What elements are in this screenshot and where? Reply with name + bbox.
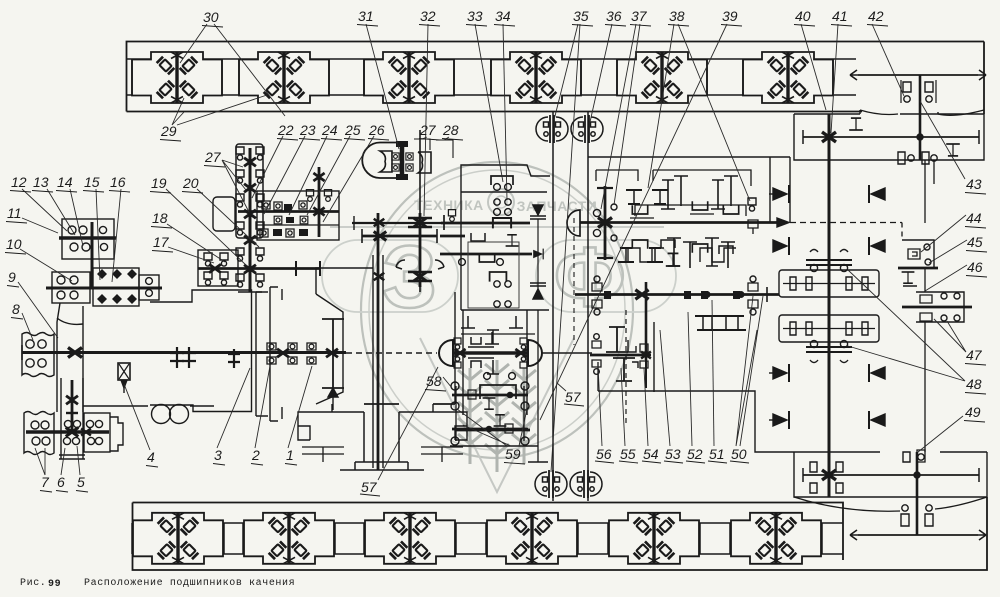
circle pair top left [536, 115, 568, 143]
down arrow symbol [533, 205, 543, 215]
svg-text:З: З [382, 227, 437, 326]
svg-text:35: 35 [573, 8, 589, 24]
leader 59 fan [457, 409, 527, 446]
leader 57a [378, 367, 438, 480]
leader 34 [503, 24, 507, 200]
upper shaft y223 left segment [352, 222, 441, 224]
svg-text:40: 40 [795, 8, 811, 24]
leaf block 8 outline [22, 333, 54, 377]
circle pair bottom right [570, 470, 602, 498]
main bold between bevels [453, 351, 528, 354]
cross shaft y236 [362, 235, 437, 238]
block 17/18 [198, 250, 238, 286]
leader 41 [831, 24, 838, 133]
connecting verticals [455, 386, 457, 441]
svg-text:27: 27 [204, 149, 222, 165]
leaders 27top 28 [422, 137, 449, 140]
hub shaft [46, 287, 162, 290]
gearbox lower case [463, 310, 527, 415]
horseshoe outer body [362, 143, 397, 179]
top band block 4 [491, 52, 581, 103]
mid circles [64, 420, 71, 427]
watermark wheat chevrons [458, 360, 536, 472]
dashed vertical x626 [625, 310, 627, 426]
steering column vertical [249, 148, 252, 292]
svg-text:18: 18 [152, 210, 168, 226]
vertical x646 lower [645, 353, 647, 388]
dashed corner [790, 222, 902, 224]
leader 48 [848, 270, 965, 381]
bracket 27 [414, 139, 430, 150]
svg-text:9: 9 [8, 269, 16, 285]
bracket 28 [436, 140, 453, 158]
watermark outer ring [361, 162, 633, 458]
lower link shaft [198, 267, 320, 270]
top band block 5 [617, 52, 707, 103]
bottom band block 3 [365, 513, 455, 564]
case bearings [810, 462, 843, 472]
axle knot X left [68, 348, 82, 358]
svg-text:6: 6 [57, 474, 65, 490]
watermark emblem circle [488, 189, 514, 215]
housing walls lower [59, 378, 85, 459]
big I gear above [606, 327, 628, 352]
top horn shaft [858, 74, 978, 76]
upper case shaft [803, 136, 979, 138]
svg-text:8: 8 [12, 301, 20, 317]
svg-text:99: 99 [48, 579, 61, 590]
right bevel D-gear [528, 340, 542, 366]
vertical x420 [419, 130, 421, 292]
svg-text:2: 2 [251, 447, 260, 463]
svg-text:56: 56 [596, 446, 612, 462]
watermark inner ring [369, 170, 625, 450]
leader 36 [590, 24, 612, 122]
kingpin vertical [91, 222, 94, 287]
leader 18 17 [167, 224, 225, 263]
leader 49 [918, 416, 963, 452]
funnels top [860, 110, 984, 115]
svg-text:14: 14 [57, 174, 73, 190]
svg-text:52: 52 [687, 446, 703, 462]
knuckle housing walls [57, 303, 60, 412]
case wall x654 [653, 322, 655, 392]
leader 42 [872, 24, 904, 96]
bottom band rails [133, 522, 844, 524]
kingpin lower vertical [71, 380, 74, 432]
svg-text:Ф: Ф [554, 230, 626, 324]
small square bearings row [262, 201, 270, 209]
D-bevel on input shaft [567, 210, 580, 236]
leader 40 [801, 24, 826, 110]
leader 58 [443, 377, 452, 388]
svg-text:44: 44 [966, 210, 982, 226]
leader 11 10 9 8 [18, 218, 72, 340]
leaders 7 6 5 [35, 446, 80, 475]
svg-text:19: 19 [151, 175, 167, 191]
leader 44 [921, 215, 966, 252]
leaders 56-50 [598, 366, 602, 446]
horseshoe bold bar [400, 142, 405, 180]
clutch arrows y246 [773, 237, 789, 255]
svg-text:45: 45 [967, 234, 983, 250]
planetary case upper [779, 270, 879, 297]
gearbox mid shaft [440, 253, 532, 256]
svg-text:10: 10 [6, 236, 22, 252]
countershaft bearings [592, 283, 602, 291]
svg-text:29: 29 [160, 123, 177, 139]
svg-text:59: 59 [505, 446, 521, 462]
bell outline / clutch discs [150, 290, 252, 412]
wheel 2 [170, 405, 189, 424]
lower wavy leaf block [24, 412, 54, 455]
right wavy piece [418, 152, 431, 173]
top band frame [127, 42, 985, 112]
gears above/below between bevels [468, 337, 494, 347]
gearbox lower gears [490, 272, 507, 282]
lower shaft 2 [452, 428, 528, 431]
svg-text:24: 24 [321, 122, 338, 138]
bottom vertical x917 [916, 452, 919, 535]
below countershaft gears [704, 316, 720, 330]
46/47 block [916, 292, 964, 322]
watermark stadium right [536, 240, 676, 312]
steering bearings [236, 147, 244, 160]
lower shaft 1 [452, 394, 528, 397]
circle pair bottom left [535, 470, 567, 498]
upper kingpin block [62, 219, 114, 259]
svg-text:39: 39 [722, 8, 738, 24]
svg-text:20: 20 [182, 175, 199, 191]
svg-text:30: 30 [203, 9, 219, 25]
case outline bottom [598, 391, 794, 452]
upper case bottom bearings [898, 152, 929, 164]
leader 19 20 [166, 189, 259, 266]
svg-text:34: 34 [495, 8, 511, 24]
step below case 43 [925, 160, 934, 223]
svg-text:15: 15 [84, 174, 100, 190]
wheel knots on x420 [408, 218, 432, 281]
funnels bottom [794, 497, 987, 511]
steering shaft horizontal 1 [238, 210, 339, 213]
svg-text:3: 3 [214, 447, 222, 463]
main vertical shaft x829 [828, 114, 831, 497]
svg-text:55: 55 [620, 446, 636, 462]
leader 33 [475, 24, 503, 182]
reverse comb above bevels [461, 316, 523, 344]
top band cell walls [132, 59, 833, 95]
lower cluster shaft y=355 [590, 354, 651, 357]
clutch arrows y420 [773, 411, 789, 429]
svg-text:28: 28 [442, 122, 459, 138]
bell lintels [298, 404, 364, 440]
main axle shaft [22, 351, 346, 354]
lower gear comb [632, 240, 647, 249]
lower case shaft [803, 474, 979, 476]
leader 35 [551, 24, 580, 472]
bottom band block 6 [731, 513, 821, 564]
bell cone bracket [316, 294, 343, 404]
svg-text:54: 54 [643, 446, 659, 462]
watermark shield V [420, 338, 574, 492]
frame line 2 [190, 405, 214, 407]
PTO wall right [587, 112, 589, 501]
leader 39 [540, 24, 727, 420]
gearbox bottom shaft [455, 429, 530, 432]
svg-text:5: 5 [77, 474, 85, 490]
clutch shaft verticals [372, 255, 374, 468]
top vertical x920 [919, 75, 922, 160]
vertical x646 [645, 282, 648, 360]
top band block 3 [364, 52, 454, 103]
svg-text:51: 51 [709, 446, 725, 462]
svg-text:48: 48 [966, 376, 982, 392]
frame line [83, 405, 148, 407]
leaf block 8 circles [26, 340, 34, 348]
svg-text:Рис.: Рис. [20, 578, 46, 589]
svg-text:23: 23 [299, 122, 316, 138]
gearbox upper shaft [441, 222, 530, 225]
svg-text:13: 13 [33, 174, 49, 190]
big knot on input [598, 218, 612, 228]
svg-text:16: 16 [110, 174, 126, 190]
44/45 block [902, 240, 934, 268]
bottom band block 1 [133, 513, 223, 564]
right steering vertical [318, 167, 321, 237]
gearbox inner line y203 [494, 199, 500, 205]
double row housing [257, 191, 339, 240]
underlines for all labels [5, 25, 987, 493]
svg-text:36: 36 [606, 8, 622, 24]
svg-text:49: 49 [965, 404, 981, 420]
svg-text:11: 11 [7, 205, 22, 221]
svg-text:43: 43 [966, 176, 982, 192]
svg-text:57: 57 [361, 479, 378, 495]
curved arrows [396, 260, 405, 269]
underlines for 50-57 [360, 404, 749, 496]
horseshoe bearings [392, 153, 399, 160]
bell center foot [340, 412, 424, 470]
top band rails [127, 58, 857, 60]
horseshoe inner bracket [380, 151, 392, 172]
svg-text:25: 25 [344, 122, 361, 138]
leaders 12-16 [22, 189, 121, 282]
svg-text:Расположение подшипников кач: Расположение подшипников качения [84, 578, 295, 589]
leader 29 [172, 95, 267, 125]
steering box rounded [213, 197, 235, 231]
upper case [794, 114, 984, 160]
knots on axle [277, 349, 289, 358]
cluster case top [588, 156, 790, 158]
inner case contour [596, 170, 751, 186]
svg-text:ЗАПЧАСТИ: ЗАПЧАСТИ [517, 198, 598, 214]
svg-text:33: 33 [467, 8, 483, 24]
svg-text:22: 22 [277, 122, 294, 138]
bearing D on dashed [748, 198, 756, 211]
countershaft y=294.5 [575, 293, 779, 296]
lower case [794, 452, 987, 497]
clutch arrows y373 [773, 364, 789, 382]
lower axle shaft [26, 430, 109, 433]
I gear below [613, 358, 635, 381]
bottom band block 5 [609, 513, 699, 564]
clutch arrows y194 [773, 185, 789, 203]
bottom horn shaft [858, 534, 978, 536]
svg-text:58: 58 [426, 373, 442, 389]
svg-text:12: 12 [11, 174, 27, 190]
circle pair top right [571, 115, 603, 143]
leader 47 [934, 319, 966, 352]
PTO wall left [552, 112, 554, 501]
bottom band block 2 [244, 513, 334, 564]
upper gear comb [626, 190, 642, 204]
left bevel D-gear [439, 340, 453, 366]
up arrow under I-column [328, 388, 338, 397]
bottom band cell walls [132, 523, 822, 554]
steering stack box [236, 144, 263, 238]
top band block 2 [239, 52, 329, 103]
top band block 1 [132, 52, 222, 103]
leader 32 [424, 24, 428, 216]
svg-text:41: 41 [832, 8, 848, 24]
axle end tick [21, 345, 23, 360]
svg-text:47: 47 [966, 347, 983, 363]
connecting vertical [924, 268, 926, 292]
leader 27 fan [222, 160, 249, 212]
svg-text:57: 57 [565, 389, 582, 405]
steering knots [244, 158, 256, 167]
leader 57b [557, 383, 566, 391]
hub right small block [139, 275, 159, 300]
svg-text:37: 37 [631, 8, 648, 24]
joint crosses on axle [170, 347, 184, 368]
svg-text:53: 53 [665, 446, 681, 462]
horn bearings [902, 505, 908, 511]
leader 30 [180, 24, 285, 116]
leader 45 [929, 240, 967, 263]
svg-text:38: 38 [669, 8, 685, 24]
top band block 6 [743, 52, 833, 103]
svg-text:26: 26 [368, 122, 385, 138]
gearbox upper internal gear [493, 218, 511, 228]
I-column x333 [322, 319, 344, 388]
top horn bearings [903, 82, 911, 92]
watermark chord line [330, 226, 664, 228]
svg-text:4: 4 [147, 449, 155, 465]
input shaft y=222 [580, 221, 783, 224]
leader 46 [925, 265, 967, 291]
svg-text:50: 50 [731, 446, 747, 462]
right bearing block [84, 413, 110, 452]
hub cluster left block [52, 272, 90, 303]
leader 37 [601, 24, 640, 209]
svg-text:31: 31 [358, 8, 374, 24]
axle bearing cups 1-3 [267, 343, 316, 364]
svg-text:27: 27 [419, 122, 437, 138]
svg-text:1: 1 [286, 447, 294, 463]
wheel 1 [152, 405, 171, 424]
gearbox top gear [491, 176, 513, 185]
bevel pair on main line [346, 352, 437, 354]
bottom band block 4 [487, 513, 577, 564]
leader 31 [366, 24, 399, 149]
planetary wheel bars [806, 260, 852, 265]
svg-text:32: 32 [420, 8, 436, 24]
gear on upper-case shaft [849, 118, 863, 130]
leader 43 [920, 101, 965, 179]
damper item4 [118, 363, 130, 380]
bottom band frame [133, 497, 988, 570]
svg-text:42: 42 [868, 8, 884, 24]
leader 4 3 2 1 [124, 366, 312, 450]
watermark stadium left [322, 240, 458, 312]
svg-text:7: 7 [41, 474, 50, 490]
svg-text:46: 46 [967, 259, 983, 275]
planetary case lower [779, 315, 879, 342]
svg-text:17: 17 [153, 234, 170, 250]
hub diamonds [97, 269, 137, 304]
leader 38 [648, 24, 750, 201]
gearbox case [461, 165, 550, 310]
leaders 22-26 [252, 136, 283, 198]
